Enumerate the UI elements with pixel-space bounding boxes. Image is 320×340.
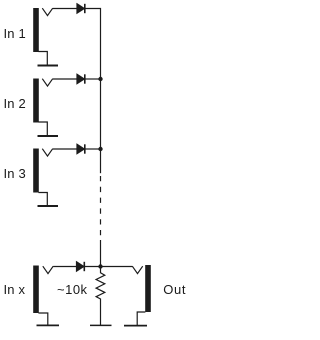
jack Jx tip contact	[43, 266, 53, 273]
wire Jout sleeve to ground	[137, 312, 145, 325]
svg-text:~10k: ~10k	[57, 282, 88, 297]
diode D2	[77, 74, 84, 83]
wire bus below row3	[100, 149, 102, 173]
wire J2 sleeve to ground	[38, 122, 47, 136]
wire Jx sleeve to ground	[38, 313, 47, 325]
svg-text:In 2: In 2	[4, 96, 26, 111]
wire D1 cathode to bus corner	[85, 9, 101, 79]
ground Gx	[37, 324, 60, 326]
wire J1 sleeve to ground	[38, 52, 47, 66]
jack Jout tip contact	[132, 266, 142, 273]
diode Dx	[77, 262, 84, 271]
svg-text:In x: In x	[4, 282, 26, 297]
ground G2	[38, 135, 59, 137]
ground Gout	[124, 325, 147, 327]
wire J3 tip to diode D3 anode	[53, 148, 77, 150]
junction node output	[98, 264, 102, 268]
svg-text:In 1: In 1	[4, 26, 26, 41]
ground GR	[90, 324, 112, 326]
jack J1 plug bar (In 1)	[33, 8, 39, 52]
wire D3 cathode to bus	[85, 148, 101, 150]
wire Dx cathode to bus	[84, 266, 100, 268]
wire D2 cathode to bus	[85, 78, 101, 80]
jack J2 tip contact	[42, 79, 52, 86]
jack Jout plug bar (Out)	[145, 265, 151, 312]
wire J2 tip to diode D2 anode	[53, 78, 77, 80]
diode D3	[77, 144, 84, 153]
ground G3	[38, 205, 59, 207]
jack J3 tip contact	[42, 149, 52, 156]
jack Jx plug bar (In x)	[33, 266, 39, 314]
svg-text:In 3: In 3	[4, 166, 26, 181]
svg-text:Out: Out	[163, 282, 186, 297]
junction node row 2	[98, 77, 102, 81]
junction node row 3	[98, 147, 102, 151]
wire junction to output jack	[101, 266, 133, 268]
jack J2 plug bar (In 2)	[33, 79, 39, 123]
wire R1 to ground	[100, 301, 102, 325]
wire bus row2 to row3	[100, 79, 102, 149]
resistor R1 ~10k	[96, 267, 105, 302]
diode D1	[77, 4, 84, 13]
ground G1	[38, 65, 59, 67]
jack J1 tip contact	[42, 8, 52, 15]
wire Jx tip to diode Dx anode	[53, 266, 76, 268]
jack J3 plug bar (In 3)	[33, 149, 39, 193]
wire J3 sleeve to ground	[38, 193, 47, 206]
wire bus to bottom junction	[100, 240, 102, 267]
wire J1 tip to diode D1 anode	[53, 8, 77, 10]
wire bus dashed continuation	[100, 176, 102, 240]
